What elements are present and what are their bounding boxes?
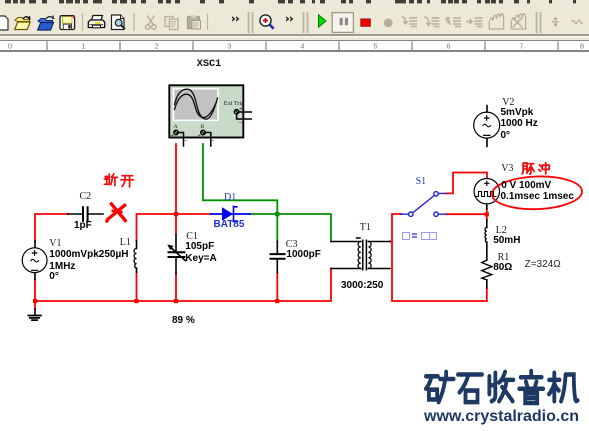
svg-text:3: 3 bbox=[227, 41, 231, 50]
svg-text:7: 7 bbox=[519, 41, 523, 50]
svg-text:2: 2 bbox=[154, 41, 158, 50]
svg-text:6: 6 bbox=[446, 41, 450, 50]
svg-text:5: 5 bbox=[373, 41, 377, 50]
svg-text:8: 8 bbox=[580, 41, 584, 50]
svg-text:1: 1 bbox=[81, 41, 85, 50]
svg-text:4: 4 bbox=[300, 41, 304, 50]
svg-text:0: 0 bbox=[8, 41, 12, 50]
